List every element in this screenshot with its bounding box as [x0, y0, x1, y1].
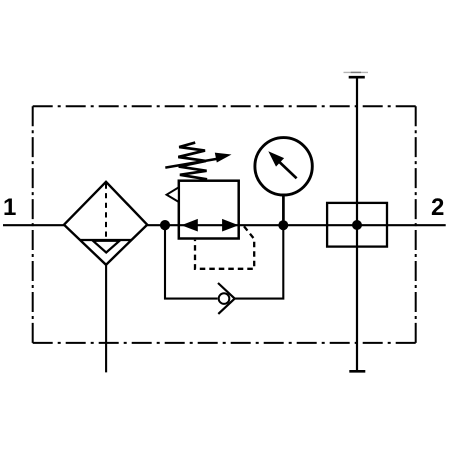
port 1 label [5, 198, 16, 215]
filter body (diamond) [64, 182, 147, 265]
top port tick [349, 76, 365, 79]
bypass wire down-left [165, 225, 218, 298]
regulator adjustment arrow head [215, 153, 232, 163]
gauge needle head [268, 151, 284, 166]
gauge junction node dot [278, 220, 288, 230]
port 1 wire [3, 224, 65, 226]
filter separator triangle [93, 241, 120, 253]
gauge stem wire [282, 195, 285, 226]
check valve ball [219, 293, 230, 304]
port 2 label [432, 198, 444, 215]
regulator spring [178, 143, 207, 180]
regulator body U1 [179, 181, 239, 239]
filter drain wire [105, 265, 107, 373]
bypass wire right-up [235, 225, 284, 298]
pressure gauge G1 body [255, 138, 312, 195]
branching block center node dot [352, 220, 362, 230]
enclosure dash-dot border [33, 105, 416, 107]
gauge needle shaft [280, 162, 297, 178]
bottom port tick [349, 370, 365, 373]
main wire from filter to port 2 [147, 224, 446, 226]
top port faint line [344, 71, 369, 73]
regulator adjustment arrow shaft [165, 159, 219, 168]
filter bowl chord [80, 239, 131, 241]
regulator flow arrow right head [222, 219, 239, 232]
top port faint line dark middle [351, 71, 361, 73]
branching block body [327, 203, 387, 247]
regulator pilot dashed line [195, 226, 254, 268]
junction node A dot [160, 220, 170, 230]
filter dashed centerline [105, 184, 107, 240]
check valve seat [218, 283, 235, 314]
regulator relief triangle [167, 187, 179, 202]
regulator flow arrow left head [181, 219, 198, 232]
branching block vertical wire [356, 77, 358, 371]
